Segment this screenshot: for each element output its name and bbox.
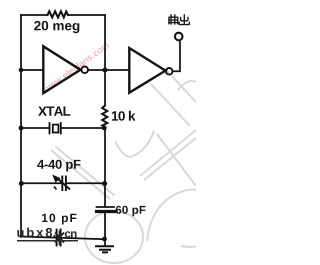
wire inverter U1 output <box>89 69 130 71</box>
ground <box>96 246 113 252</box>
wire left bus vertical <box>20 15 22 237</box>
watermark ubx8 <box>17 228 52 238</box>
inverter U1 triangle <box>43 46 80 93</box>
value label 20 meg <box>34 21 79 33</box>
wire crystal right <box>62 127 105 129</box>
resistor R1 20 meg <box>48 11 69 17</box>
wire right vertical lower <box>104 213 106 246</box>
value label 4-40 pF <box>37 160 80 172</box>
node trimmer left <box>19 181 24 186</box>
value label 60 pF <box>116 206 146 216</box>
wire inverter U1 input <box>21 69 43 71</box>
wire bottom horizontal <box>21 237 105 240</box>
inverter U2 triangle <box>129 48 165 93</box>
capacitor C2 10 pF plates <box>57 230 61 246</box>
label 输出 output (drawn CJK strokes) <box>169 14 190 25</box>
inverter U2 bubble <box>166 68 173 75</box>
capacitor C3 60 pF top plate <box>97 206 115 208</box>
capacitor C3 60 pF bottom plate <box>97 210 117 213</box>
watermark red www.elecfans.com <box>43 42 109 93</box>
watermark dot <box>54 235 56 237</box>
wire top horizontal left <box>21 14 48 16</box>
node output of U1 <box>103 68 108 73</box>
output terminal circle <box>175 33 183 41</box>
node input bus at U1 <box>19 68 24 73</box>
wire trimmer right <box>67 182 105 184</box>
wire right vertical middle <box>104 127 106 206</box>
trimmer arrow on C1 <box>53 175 70 189</box>
wire top horizontal right <box>68 14 105 16</box>
watermark asterisk <box>55 231 64 246</box>
wire output terminal drop <box>173 41 180 72</box>
wire crystal left <box>21 127 50 129</box>
value label 10 pF <box>42 214 76 225</box>
watermark cn <box>65 231 77 237</box>
inverter U1 bubble <box>81 67 88 74</box>
node trimmer right <box>102 181 107 186</box>
value label 10 k <box>112 111 136 121</box>
watermark underline <box>17 240 78 242</box>
crystal Y1 plates <box>50 123 61 134</box>
resistor R2 10 k <box>102 106 107 128</box>
watermark gray letter strokes <box>51 71 196 263</box>
wire trimmer left <box>21 182 62 184</box>
value label XTAL <box>38 107 70 116</box>
node crystal left <box>19 126 24 131</box>
capacitor C1 4-40 pF plates <box>62 177 66 191</box>
node crystal right <box>102 126 107 131</box>
crystal Y1 body <box>53 125 59 133</box>
wire right vertical upper <box>104 15 106 106</box>
node bottom junction <box>102 237 107 242</box>
